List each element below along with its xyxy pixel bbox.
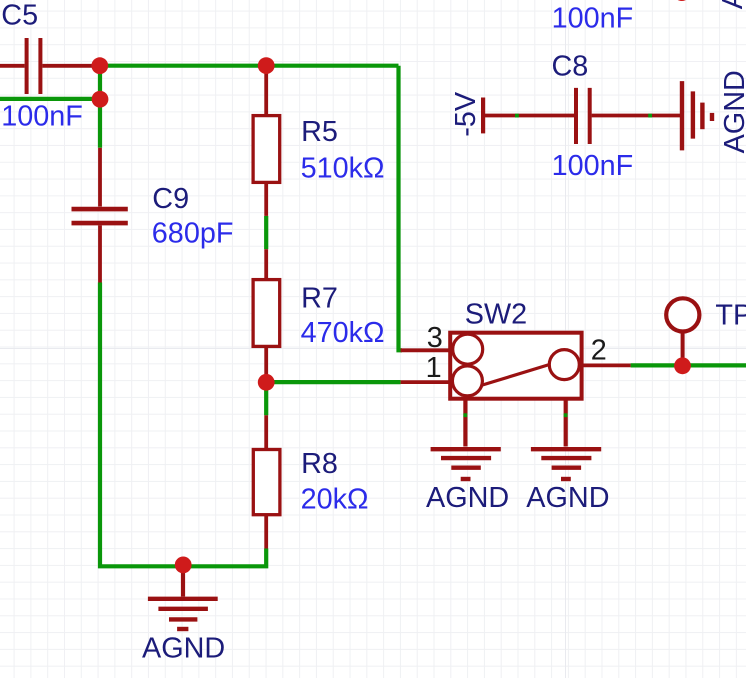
junction: C5/top net [91,57,108,74]
svg-text:C8: C8 [552,51,589,83]
svg-text:680pF: 680pF [152,217,234,249]
svg-text:1: 1 [426,352,442,384]
capacitor C5 right lead [42,64,97,68]
junction: bottom ground node [175,557,192,574]
capacitor C9 top lead [98,148,102,207]
svg-text:R5: R5 [301,116,338,148]
svg-text:SW2: SW2 [465,299,527,331]
svg-text:3: 3 [427,322,443,354]
svg-text:20kΩ: 20kΩ [301,484,369,516]
wire: green segment below middle junction to R8 lead [264,386,268,415]
svg-text:470kΩ: 470kΩ [301,317,385,349]
resistor R5 body [253,116,280,183]
wire: green bottom net C9 column to R8 bottom [100,283,266,567]
wire: SW2 ground stem left [463,399,467,447]
power symbol -5V bar [481,98,485,134]
test point TP circle [666,298,699,331]
capacitor C9 bottom lead [98,225,102,282]
resistor R8 top lead [264,415,268,449]
svg-text:510kΩ: 510kΩ [301,152,385,184]
resistor R7 top lead [264,249,268,279]
svg-text:AGND: AGND [426,482,509,514]
ground AGND (bottom) stem [181,565,185,597]
wire: SW2 pin1 stub [401,380,450,384]
svg-text:C9: C9 [152,183,189,215]
capacitor C5 plates [27,38,41,94]
major grid line vertical x=566 [565,0,566,678]
wire: green segment between R5 and R7 [264,216,268,249]
capacitor C9 plates [72,209,128,223]
wire: C8 right plate to ground [592,114,680,118]
switch SW2 pin1 contact circle [452,366,482,396]
net stub dot on C8 ground wire [648,114,652,118]
svg-text:C5: C5 [1,0,38,31]
capacitor C5 left lead [0,64,25,68]
wire: SW2 pin2 stub [582,363,631,367]
ground AGND (SW2 right) [531,449,601,479]
junction: R7/R8 middle node [258,374,275,391]
wire: middle green net from junction to SW2 pin1 stub [266,380,400,384]
svg-text:AGND: AGND [719,70,746,153]
wire: top green horizontal net y=65.7 from C5 junction to corner x=398.5 [100,64,399,68]
major grid line horizontal y=348 [0,348,746,349]
switch SW2 box [450,333,581,399]
wire: green net from SW2 pin2 to right edge y=365.4 [631,363,746,367]
junction: left net y=98.9 [92,91,109,108]
wire: TP stem [681,332,685,364]
wire: SW2 ground stem right [564,399,568,447]
resistor R8 body [253,450,280,515]
wire: green vertical x=398.5 down to SW2 pin3 corner [399,66,403,351]
svg-text:100nF: 100nF [1,101,83,133]
svg-text:AGND: AGND [142,632,225,664]
ground AGND (C8, rotated right) [682,81,712,150]
junction: clipped top dot [673,0,690,1]
resistor R8 bottom lead [264,515,268,549]
wire: SW2 pin3 stub [401,348,450,352]
wire: -5V to C8 left plate [484,114,574,118]
svg-text:TP: TP [715,299,746,331]
svg-text:AGND: AGND [717,0,746,9]
svg-text:R8: R8 [301,448,338,480]
resistor R5 bottom lead [264,184,268,216]
switch SW2 common contact circle [549,350,579,380]
resistor R5 top lead [264,66,268,114]
net stub dot on -5V wire [515,114,519,118]
net stub dot on SW2 right ground stem [564,413,568,417]
switch SW2 pin3 contact circle [453,334,483,364]
svg-text:100nF: 100nF [552,150,634,182]
junction: R5 top [258,57,275,74]
switch SW2 actuator diagonal [483,365,550,386]
svg-text:-5V: -5V [450,91,482,137]
resistor R7 body [253,280,280,347]
svg-text:2: 2 [591,334,607,366]
ground AGND (bottom) bars [148,599,218,629]
net stub dot on SW2 left ground stem [463,413,467,417]
svg-text:AGND: AGND [526,482,609,514]
wire: green vertical through junctions x=100 down to C9 lead [98,66,102,148]
capacitor C8 plates [576,88,590,144]
wire: left green horizontal net y=98.9 [0,97,100,101]
svg-text:100nF: 100nF [552,3,634,35]
ground AGND (SW2 left) [431,449,501,479]
svg-text:R7: R7 [301,283,338,315]
junction: TP node [674,357,691,374]
resistor R7 bottom lead [264,346,268,378]
